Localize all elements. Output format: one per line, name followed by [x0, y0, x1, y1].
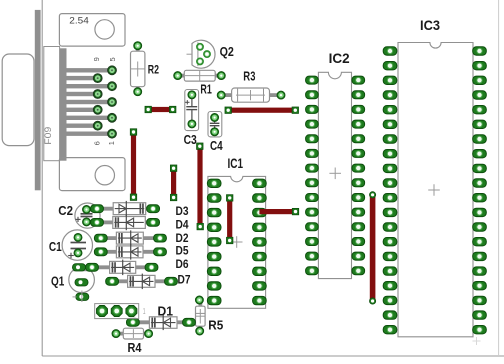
wire trace T8 with via — [259, 208, 298, 214]
board outline left edge — [41, 0, 43, 356]
resistor R2 — [131, 42, 160, 96]
capacitor C2 — [58, 203, 100, 228]
resistor R5 — [195, 296, 223, 335]
svg-text:D1: D1 — [158, 304, 174, 318]
connector X1 pin number 1 — [107, 141, 116, 145]
svg-text:IC1: IC1 — [228, 156, 244, 171]
svg-text:Q2: Q2 — [220, 45, 234, 59]
capacitor C4 — [208, 112, 223, 153]
diode D1 — [127, 304, 196, 330]
IC2 label — [329, 51, 350, 66]
wire trace T1 with vias — [145, 106, 176, 112]
wire trace T5 with vias — [170, 165, 176, 201]
wire trace T9 with vias — [370, 192, 376, 304]
IC1 center cross — [231, 236, 243, 248]
connector X1 DB9 shell and ears — [2, 10, 125, 191]
diode D2 — [94, 230, 188, 246]
diode D7 — [106, 273, 191, 290]
svg-text:IC2: IC2 — [329, 51, 350, 66]
wire trace T6 with vias — [197, 143, 204, 230]
connector X1 pin number 6 — [93, 141, 102, 145]
svg-text:C1: C1 — [49, 239, 62, 254]
svg-text:9: 9 — [92, 57, 101, 61]
svg-text:D7: D7 — [178, 273, 191, 287]
resistor R4 — [112, 328, 153, 355]
diode D5 — [94, 244, 188, 260]
svg-text:R1: R1 — [200, 82, 211, 96]
svg-text:R3: R3 — [243, 70, 255, 84]
resistor R3 — [217, 70, 285, 103]
transistor Q2 — [187, 40, 234, 68]
ic IC1 DIL18 — [207, 176, 266, 308]
svg-text:D4: D4 — [176, 218, 189, 232]
resistor R1 — [174, 70, 226, 96]
diode D3 — [91, 201, 189, 218]
diode D6 — [86, 257, 189, 275]
svg-text:C2: C2 — [58, 204, 73, 218]
connector X1 pins — [67, 68, 113, 136]
svg-text:5: 5 — [108, 57, 117, 61]
ic IC2 DIL28 — [306, 72, 365, 278]
IC3 center cross — [428, 184, 440, 196]
wire trace T7 with vias — [227, 195, 233, 244]
svg-text:C4: C4 — [210, 139, 223, 153]
wire trace T3 with vias — [225, 107, 299, 113]
svg-text:C3: C3 — [184, 133, 197, 147]
svg-text:R2: R2 — [148, 64, 159, 76]
board outline bottom edge — [42, 355, 504, 357]
origin cross near IC3 bottom — [473, 337, 481, 345]
svg-text:2.54: 2.54 — [69, 15, 89, 26]
svg-text:1: 1 — [143, 306, 146, 316]
connector X1 pin number 9 — [92, 57, 101, 61]
svg-text:F09: F09 — [43, 127, 53, 145]
svg-text:D3: D3 — [176, 204, 189, 218]
capacitor C1 — [49, 230, 93, 260]
IC3 label — [420, 18, 440, 33]
wire trace T4 with vias — [130, 129, 136, 201]
svg-text:D6: D6 — [176, 257, 189, 271]
svg-text:R4: R4 — [128, 341, 142, 355]
svg-text:6: 6 — [93, 141, 102, 145]
diode D4 — [91, 215, 189, 232]
svg-text:D5: D5 — [176, 244, 189, 258]
transistor Q1 — [51, 264, 94, 302]
svg-text:R5: R5 — [208, 318, 223, 332]
capacitor C3 — [184, 90, 199, 147]
svg-text:IC3: IC3 — [420, 18, 440, 33]
connector X1 pin number 5 — [108, 57, 117, 61]
IC1 label — [228, 156, 244, 171]
jumper JP1 3-pin header — [95, 304, 146, 319]
svg-text:Q1: Q1 — [51, 273, 64, 288]
svg-text:1: 1 — [107, 141, 116, 145]
connector X1 text F09 — [43, 127, 53, 145]
IC2 center cross — [329, 168, 341, 180]
connector X1 pin pads — [93, 66, 116, 138]
board outline right edge — [498, 0, 500, 356]
connector X1 text 2.54 — [69, 15, 89, 26]
ic IC3 DIL40 — [383, 43, 486, 337]
